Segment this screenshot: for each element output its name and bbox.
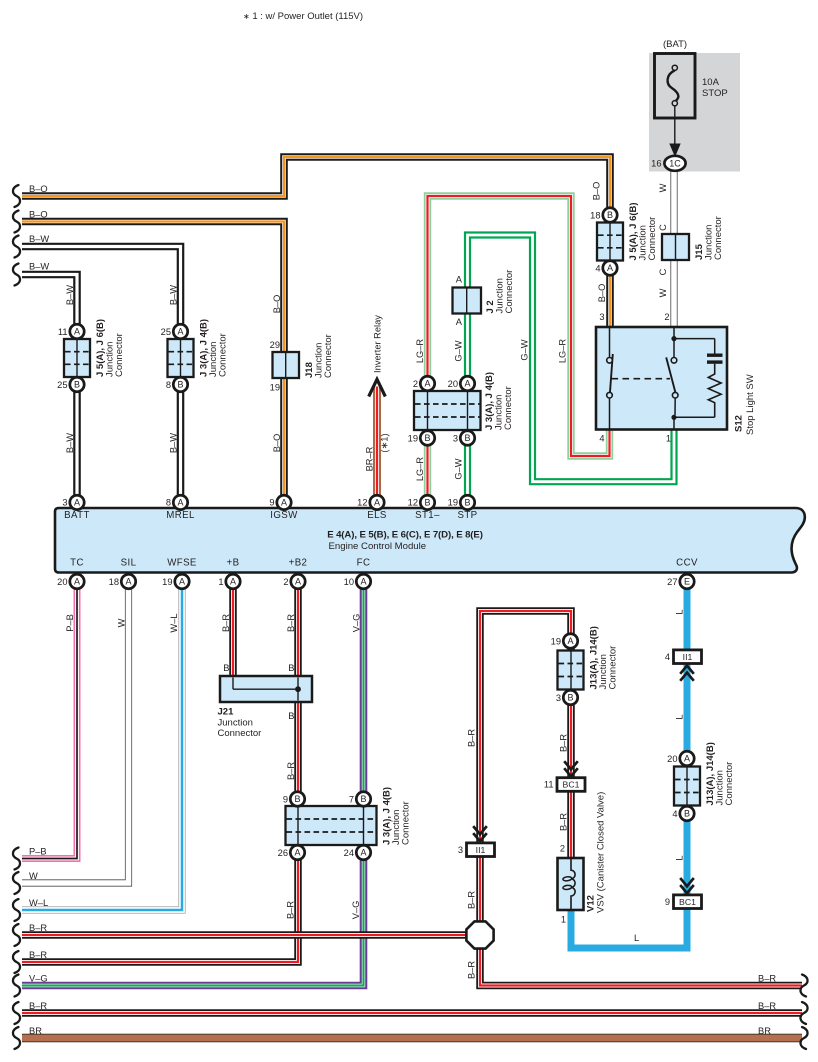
svg-text:A: A — [464, 379, 470, 389]
svg-text:IGSW: IGSW — [270, 510, 298, 521]
svg-text:BC1: BC1 — [563, 780, 580, 790]
svg-text:B–W: B–W — [169, 285, 179, 305]
svg-text:19: 19 — [551, 636, 561, 646]
svg-text:C: C — [658, 224, 668, 231]
svg-text:11: 11 — [544, 780, 554, 790]
svg-text:B–R: B–R — [467, 729, 477, 747]
svg-text:12: 12 — [357, 498, 367, 508]
svg-text:E: E — [684, 577, 690, 587]
svg-text:A: A — [424, 379, 430, 389]
svg-text:CCV: CCV — [676, 558, 698, 569]
svg-text:1: 1 — [218, 577, 223, 587]
svg-text:P–B: P–B — [29, 847, 47, 857]
svg-text:B–R: B–R — [559, 734, 569, 752]
svg-text:(BAT): (BAT) — [663, 39, 687, 50]
svg-text:3: 3 — [62, 498, 67, 508]
svg-text:B–O: B–O — [29, 184, 48, 194]
svg-text:4: 4 — [665, 652, 670, 662]
svg-text:E 4(A), E 5(B), E 6(C), E 7(D): E 4(A), E 5(B), E 6(C), E 7(D), E 8(E) — [327, 530, 483, 541]
svg-text:A: A — [374, 498, 380, 508]
svg-text:LG–R: LG–R — [558, 339, 568, 364]
svg-text:20: 20 — [667, 754, 677, 764]
svg-text:STOP: STOP — [702, 88, 728, 99]
svg-text:B–R: B–R — [559, 813, 569, 831]
svg-text:A: A — [230, 577, 236, 587]
svg-text:3: 3 — [458, 845, 463, 855]
svg-text:26: 26 — [278, 848, 288, 858]
svg-text:P–B: P–B — [65, 614, 75, 632]
svg-text:A: A — [607, 263, 613, 273]
svg-text:G–W: G–W — [454, 458, 464, 479]
svg-text:8: 8 — [166, 380, 171, 390]
svg-text:19: 19 — [408, 433, 418, 443]
svg-text:WFSE: WFSE — [167, 558, 197, 569]
svg-text:V–G: V–G — [352, 614, 362, 633]
svg-text:ST1–: ST1– — [415, 510, 440, 521]
svg-text:4: 4 — [599, 434, 604, 444]
svg-text:19: 19 — [162, 577, 172, 587]
svg-text:BR: BR — [758, 1026, 771, 1036]
svg-text:B: B — [74, 380, 80, 390]
svg-text:B–R: B–R — [29, 950, 47, 960]
svg-text:A: A — [177, 327, 183, 337]
svg-text:J21: J21 — [218, 707, 235, 718]
svg-text:W: W — [658, 288, 668, 297]
svg-text:Connector: Connector — [713, 216, 724, 260]
svg-text:B: B — [684, 809, 690, 819]
svg-text:4: 4 — [672, 809, 677, 819]
svg-text:A: A — [125, 577, 131, 587]
svg-text:Connector: Connector — [218, 333, 229, 377]
svg-text:C: C — [658, 268, 668, 275]
svg-text:8: 8 — [166, 498, 171, 508]
svg-text:Connector: Connector — [218, 728, 262, 739]
svg-text:9: 9 — [283, 794, 288, 804]
svg-text:Engine Control Module: Engine Control Module — [329, 541, 427, 552]
svg-text:1: 1 — [666, 434, 671, 444]
svg-text:B: B — [223, 663, 229, 673]
svg-text:V–G: V–G — [29, 974, 48, 984]
svg-text:25: 25 — [57, 380, 67, 390]
svg-text:B–W: B–W — [29, 262, 49, 272]
svg-text:A: A — [360, 577, 366, 587]
svg-text:BC1: BC1 — [679, 897, 696, 907]
svg-text:B–O: B–O — [272, 434, 282, 453]
svg-text:3: 3 — [556, 693, 561, 703]
svg-text:A: A — [281, 498, 287, 508]
svg-text:B–R: B–R — [286, 901, 296, 919]
svg-text:24: 24 — [344, 848, 354, 858]
svg-text:B–O: B–O — [597, 284, 607, 303]
svg-text:27: 27 — [667, 577, 677, 587]
svg-text:12: 12 — [408, 498, 418, 508]
svg-text:B–W: B–W — [169, 433, 179, 453]
svg-text:W: W — [29, 871, 38, 881]
svg-text:Connector: Connector — [647, 217, 658, 261]
svg-text:B: B — [360, 794, 366, 804]
svg-text:S12: S12 — [734, 415, 745, 432]
svg-text:Junction: Junction — [218, 718, 253, 729]
svg-text:B–R: B–R — [29, 923, 47, 933]
svg-text:B: B — [288, 663, 294, 673]
svg-text:B: B — [177, 380, 183, 390]
svg-text:19: 19 — [270, 383, 280, 393]
svg-text:TC: TC — [70, 558, 84, 569]
svg-text:1C: 1C — [669, 159, 681, 169]
svg-text:Connector: Connector — [724, 762, 735, 806]
svg-text:7: 7 — [349, 794, 354, 804]
svg-text:+B2: +B2 — [289, 558, 308, 569]
svg-text:Inverter Relay: Inverter Relay — [373, 315, 383, 373]
svg-text:Connector: Connector — [503, 386, 514, 430]
svg-text:B–W: B–W — [65, 433, 75, 453]
svg-text:2: 2 — [664, 312, 669, 322]
svg-text:BR: BR — [29, 1026, 42, 1036]
svg-text:LG–R: LG–R — [415, 457, 425, 482]
svg-text:11: 11 — [58, 327, 68, 337]
svg-text:20: 20 — [448, 379, 458, 389]
svg-text:B: B — [464, 433, 470, 443]
svg-text:B–R: B–R — [221, 614, 231, 632]
svg-text:A: A — [74, 327, 80, 337]
svg-text:SIL: SIL — [121, 558, 137, 569]
svg-text:4: 4 — [595, 263, 600, 273]
svg-text:B: B — [424, 498, 430, 508]
svg-text:25: 25 — [161, 327, 171, 337]
svg-text:10A: 10A — [702, 77, 720, 88]
svg-text:A: A — [567, 636, 573, 646]
svg-text:(∗1): (∗1) — [380, 433, 390, 452]
svg-text:BATT: BATT — [64, 510, 90, 521]
svg-text:BR–R: BR–R — [365, 446, 375, 471]
svg-text:ELS: ELS — [367, 510, 387, 521]
svg-text:A: A — [456, 317, 463, 327]
svg-text:B: B — [464, 498, 470, 508]
svg-text:Connector: Connector — [401, 801, 412, 845]
svg-text:B: B — [424, 433, 430, 443]
svg-text:B–R: B–R — [286, 614, 296, 632]
svg-text:B: B — [607, 210, 613, 220]
svg-text:A: A — [74, 577, 80, 587]
svg-text:20: 20 — [57, 577, 67, 587]
svg-text:A: A — [684, 754, 690, 764]
svg-text:STP: STP — [457, 510, 477, 521]
svg-text:A: A — [179, 577, 185, 587]
svg-text:9: 9 — [665, 897, 670, 907]
svg-text:B–R: B–R — [467, 891, 477, 909]
svg-text:B–R: B–R — [29, 1001, 47, 1011]
svg-text:L: L — [675, 714, 685, 719]
svg-text:VSV (Canister Closed Valve): VSV (Canister Closed Valve) — [596, 792, 607, 913]
svg-text:+B: +B — [227, 558, 240, 569]
svg-text:19: 19 — [448, 498, 458, 508]
svg-text:G–W: G–W — [520, 339, 530, 360]
svg-text:B: B — [294, 794, 300, 804]
svg-text:2: 2 — [283, 577, 288, 587]
svg-text:A: A — [456, 275, 463, 285]
svg-text:1: 1 — [561, 915, 566, 925]
svg-text:L: L — [675, 855, 685, 860]
svg-text:G–W: G–W — [454, 340, 464, 361]
svg-text:L: L — [634, 933, 639, 943]
svg-text:B–R: B–R — [758, 974, 776, 984]
svg-text:A: A — [177, 498, 183, 508]
svg-text:B–O: B–O — [592, 182, 602, 201]
svg-text:LG–R: LG–R — [415, 339, 425, 364]
svg-text:W–L: W–L — [29, 898, 48, 908]
svg-text:Connector: Connector — [114, 333, 125, 377]
svg-text:29: 29 — [270, 340, 280, 350]
svg-text:W: W — [658, 183, 668, 192]
svg-text:Stop Light SW: Stop Light SW — [745, 374, 756, 435]
svg-text:V–G: V–G — [351, 901, 361, 920]
svg-text:B: B — [288, 711, 294, 721]
svg-text:16: 16 — [651, 159, 661, 169]
svg-text:B–W: B–W — [29, 234, 49, 244]
svg-text:B–R: B–R — [758, 1001, 776, 1011]
svg-text:W–L: W–L — [169, 613, 179, 632]
svg-text:3: 3 — [453, 433, 458, 443]
svg-text:A: A — [360, 848, 366, 858]
svg-text:II1: II1 — [683, 652, 693, 662]
svg-text:W: W — [117, 618, 127, 627]
svg-text:FC: FC — [357, 558, 371, 569]
svg-text:B: B — [567, 693, 573, 703]
svg-text:2: 2 — [560, 844, 565, 854]
svg-text:A: A — [295, 577, 301, 587]
svg-text:B–O: B–O — [29, 210, 48, 220]
svg-text:B–W: B–W — [65, 285, 75, 305]
svg-text:II1: II1 — [476, 845, 486, 855]
svg-text:10: 10 — [344, 577, 354, 587]
svg-text:∗ 1 : w/ Power Outlet (115V): ∗ 1 : w/ Power Outlet (115V) — [243, 11, 363, 22]
svg-text:MREL: MREL — [166, 510, 195, 521]
svg-text:Connector: Connector — [323, 334, 334, 378]
svg-text:B–O: B–O — [272, 295, 282, 314]
svg-text:A: A — [294, 848, 300, 858]
svg-text:B–R: B–R — [286, 762, 296, 780]
svg-text:18: 18 — [109, 577, 119, 587]
svg-text:3: 3 — [599, 312, 604, 322]
svg-text:18: 18 — [590, 210, 600, 220]
svg-text:Connector: Connector — [608, 646, 619, 690]
svg-text:2: 2 — [413, 379, 418, 389]
svg-text:A: A — [74, 498, 80, 508]
svg-text:B–R: B–R — [467, 961, 477, 979]
svg-text:Connector: Connector — [504, 270, 515, 314]
svg-text:9: 9 — [269, 498, 274, 508]
svg-text:L: L — [675, 609, 685, 614]
